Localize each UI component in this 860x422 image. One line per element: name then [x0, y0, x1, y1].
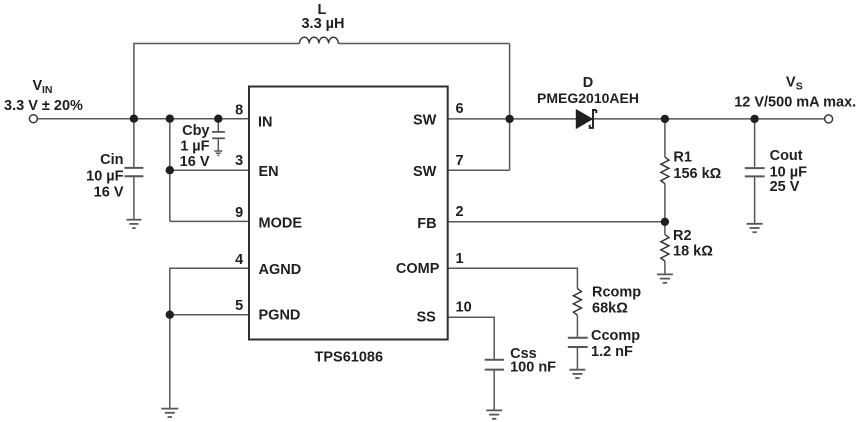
wire: Cby top lead: [217, 119, 219, 131]
wire: PGND vertical to ground: [169, 315, 171, 409]
junction node: input/Cin: [130, 115, 138, 123]
svg-text:156 kΩ: 156 kΩ: [673, 166, 721, 182]
svg-text:FB: FB: [417, 216, 436, 232]
ground: R2: [657, 274, 673, 282]
terminal: VIN input: [29, 115, 37, 123]
svg-text:7: 7: [456, 153, 464, 169]
ground: Cin: [126, 220, 141, 228]
svg-text:Rcomp: Rcomp: [592, 285, 641, 301]
wire: Rcomp to Ccomp lead: [576, 315, 578, 337]
junction node: EN tap: [166, 166, 174, 174]
svg-text:AGND: AGND: [259, 262, 302, 278]
wire: EN stub pin 3: [170, 169, 248, 171]
wire: Cout bottom lead to ground: [754, 177, 756, 223]
wire: PGND stub pin 5: [170, 314, 248, 316]
terminal: VS output: [825, 115, 833, 123]
capacitor Css plates: [485, 360, 504, 370]
wire: R2 top lead: [664, 222, 666, 235]
wire: top boost rail left vertical (input junction up): [134, 44, 300, 119]
svg-text:IN: IN: [258, 114, 273, 130]
wire: Cby bottom lead: [217, 139, 219, 150]
ground: Ccomp: [569, 370, 585, 378]
resistor R1 zigzag: [661, 157, 669, 184]
wire: R2 bottom lead to ground: [664, 261, 666, 274]
wire: Ccomp bottom lead to ground: [576, 348, 578, 369]
svg-text:68kΩ: 68kΩ: [592, 300, 628, 316]
svg-text:3.3 V ± 20%: 3.3 V ± 20%: [4, 98, 83, 114]
wire: R1 bottom lead to FB node: [664, 184, 666, 222]
svg-text:D: D: [583, 75, 593, 91]
wire: MODE stub pin 9: [170, 220, 248, 222]
svg-text:1.2 nF: 1.2 nF: [591, 344, 633, 360]
svg-text:1: 1: [456, 251, 464, 267]
wire: FB stub pin 2: [448, 221, 665, 223]
svg-text:V: V: [786, 75, 796, 91]
ground: Cby (mini): [214, 151, 222, 155]
svg-text:SW: SW: [413, 164, 437, 180]
svg-text:5: 5: [235, 298, 243, 314]
svg-text:R2: R2: [673, 228, 692, 244]
wire: SW vertical down to pin 7: [509, 44, 511, 171]
svg-text:R1: R1: [673, 150, 692, 166]
resistor R2 zigzag: [661, 235, 669, 262]
resistor Rcomp zigzag: [573, 289, 581, 316]
svg-text:S: S: [796, 81, 803, 93]
svg-text:TPS61086: TPS61086: [315, 349, 384, 365]
svg-text:PMEG2010AEH: PMEG2010AEH: [537, 90, 639, 106]
svg-text:SS: SS: [416, 309, 436, 325]
svg-text:Cin: Cin: [100, 152, 123, 168]
svg-text:2: 2: [456, 204, 464, 220]
svg-text:6: 6: [456, 101, 464, 117]
svg-text:9: 9: [235, 205, 243, 221]
wire: SS stub pin 10 and down to Css: [448, 317, 495, 359]
wire: diode cathode to VS terminal: [594, 118, 824, 120]
ground: Cout: [747, 224, 763, 232]
svg-text:10: 10: [456, 300, 472, 316]
svg-text:IN: IN: [42, 84, 53, 96]
svg-text:SW: SW: [413, 113, 437, 129]
wire: AGND stub pin 4 down to PGND: [170, 268, 248, 314]
wire: diode anode wire: [510, 118, 577, 120]
junction node: PGND tap: [166, 311, 174, 319]
inductor L coils: [300, 37, 339, 43]
wire: pin 7 SW stub: [448, 169, 510, 171]
junction node: input/Cby: [214, 115, 222, 123]
svg-text:Cout: Cout: [770, 148, 803, 164]
capacitor Cin plates: [124, 168, 143, 176]
ground: PGND: [161, 409, 178, 417]
svg-text:4: 4: [235, 252, 243, 268]
svg-text:25 V: 25 V: [770, 179, 800, 195]
svg-text:16 V: 16 V: [180, 154, 210, 170]
wire: top rail inductor to SW vertical: [338, 43, 509, 45]
svg-text:EN: EN: [259, 164, 279, 180]
svg-text:3.3 µH: 3.3 µH: [301, 16, 344, 32]
svg-text:PGND: PGND: [259, 308, 301, 324]
junction node: FB divider: [661, 218, 669, 226]
wire: Cin bottom lead: [133, 177, 135, 219]
wire: Cin top lead: [133, 119, 135, 167]
svg-text:Cby: Cby: [182, 123, 209, 139]
wire: pin 6 SW stub: [448, 118, 510, 120]
wire: R1 top lead: [664, 119, 666, 157]
capacitor Cby plates (small): [212, 132, 225, 138]
wire: COMP stub pin 1 and down to Rcomp: [448, 268, 578, 288]
svg-text:MODE: MODE: [259, 215, 303, 231]
wire: VIN terminal to IC IN pin: [38, 118, 248, 120]
IC U1 TPS61086 body: [249, 87, 448, 340]
svg-text:18 kΩ: 18 kΩ: [673, 244, 713, 260]
svg-text:10 µF: 10 µF: [86, 169, 124, 185]
svg-text:V: V: [33, 78, 43, 94]
capacitor Ccomp plates: [568, 338, 588, 347]
svg-text:8: 8: [235, 103, 243, 119]
ground: Css: [486, 410, 502, 418]
junction node: input/EN branch: [166, 115, 174, 123]
wire: Cout top lead: [754, 119, 756, 167]
wire: Css bottom lead to ground: [493, 371, 495, 411]
svg-text:100 nF: 100 nF: [510, 360, 556, 376]
svg-text:Ccomp: Ccomp: [591, 328, 640, 344]
wire: EN/MODE vertical from input junction: [169, 119, 171, 222]
svg-text:12 V/500 mA max.: 12 V/500 mA max.: [734, 94, 856, 110]
svg-text:1 µF: 1 µF: [180, 138, 209, 154]
diode D schottky cathode bar: [590, 110, 597, 128]
svg-text:COMP: COMP: [396, 261, 440, 277]
junction node: VS/R1: [661, 115, 669, 123]
svg-text:16 V: 16 V: [94, 184, 124, 200]
junction node: VS/Cout: [750, 115, 758, 123]
svg-text:3: 3: [235, 153, 243, 169]
diode D triangle: [576, 110, 592, 129]
junction node: SW rail: [505, 115, 513, 123]
capacitor Cout plates: [745, 168, 765, 176]
